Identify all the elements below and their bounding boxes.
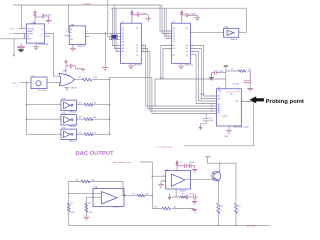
ground opamp2 cap bbox=[192, 169, 198, 172]
svg-text:A1: A1 bbox=[122, 32, 124, 35]
svg-text:7: 7 bbox=[187, 178, 188, 180]
svg-text:R?: R? bbox=[182, 193, 184, 195]
ground OR gate below bbox=[64, 88, 69, 91]
svg-text:1.0K: 1.0K bbox=[71, 212, 76, 214]
svg-text:U?A: U?A bbox=[224, 26, 229, 29]
capacitor C7 opamp2 top bbox=[177, 164, 195, 170]
wire bus collector bbox=[110, 77, 217, 113]
svg-text:74HC04: 74HC04 bbox=[69, 141, 77, 143]
svg-text:5: 5 bbox=[163, 180, 164, 182]
op-amp U12 box bbox=[93, 189, 124, 207]
svg-text:C? 1uF: C? 1uF bbox=[217, 71, 224, 73]
wire buffer2 input bbox=[27, 118, 62, 120]
wire osc input bbox=[20, 82, 31, 84]
capacitor C2 gnd left bbox=[17, 43, 24, 49]
wire IC4 pin drop 4 bbox=[166, 8, 171, 38]
wire IC3 pin drop 2 bbox=[114, 5, 120, 49]
wire opamp2 pin3 bbox=[161, 181, 166, 185]
svg-text:LM358: LM358 bbox=[180, 190, 187, 192]
wire IC4 pin drop 2 bbox=[162, 5, 172, 34]
wire IC4 right pin4 to DAC bbox=[190, 54, 216, 103]
ground IC3 bottom bbox=[128, 63, 134, 69]
svg-text:C? 1uF: C? 1uF bbox=[140, 13, 147, 15]
inverter U5 triangle bbox=[227, 30, 234, 35]
wire vcc rail mid bbox=[208, 162, 236, 164]
ground dark above DAC bbox=[209, 78, 213, 80]
wire buffer1 input bbox=[27, 104, 62, 106]
wire IC4 right pin3 to DAC bbox=[190, 52, 216, 102]
svg-text:D5: D5 bbox=[173, 45, 175, 47]
capacitor C4 IC4 bbox=[182, 13, 198, 18]
svg-text:6: 6 bbox=[211, 98, 212, 100]
wire opamp1 feedback bbox=[69, 182, 123, 196]
oscillator U6 box bbox=[31, 77, 47, 89]
vcc IC1 bbox=[34, 11, 37, 24]
resistor R3 buffer2 bbox=[84, 118, 93, 121]
svg-text:16: 16 bbox=[142, 47, 144, 49]
op-amp U2 IC2 box bbox=[69, 26, 86, 45]
svg-text:Y2: Y2 bbox=[136, 48, 138, 50]
svg-text:LM358: LM358 bbox=[113, 207, 120, 209]
svg-text:6: 6 bbox=[117, 50, 118, 52]
wire IC2 input drop bbox=[68, 5, 70, 32]
wire IC4 right pin2 to DAC bbox=[190, 49, 216, 99]
svg-text:U?A: U?A bbox=[62, 70, 67, 73]
svg-text:7: 7 bbox=[45, 32, 46, 34]
svg-text:C?104: C?104 bbox=[189, 193, 194, 195]
ground DAC bottom bbox=[226, 126, 232, 133]
wire IC1 right to OR gate bbox=[45, 34, 61, 77]
ground IC1 cap bbox=[46, 20, 52, 23]
inverter U10 triangle bbox=[64, 131, 74, 138]
svg-text:U?A: U?A bbox=[31, 21, 36, 24]
svg-text:74HC04: 74HC04 bbox=[69, 126, 77, 128]
inverter U9 box bbox=[61, 115, 77, 125]
wire IC4 pin drop 1 bbox=[160, 5, 172, 31]
svg-text:OUT: OUT bbox=[235, 101, 239, 103]
vcc opamp2 bbox=[176, 161, 178, 172]
svg-text:Y4: Y4 bbox=[136, 55, 138, 57]
capacitor C3 IC3 bbox=[132, 12, 148, 18]
op-amp U3 IC3 box bbox=[121, 23, 142, 63]
DAC U11 box bbox=[217, 89, 242, 126]
resistor R4 buffer3 bbox=[84, 133, 93, 136]
wire IC1 right stub bbox=[45, 35, 50, 37]
svg-text:A2: A2 bbox=[122, 44, 124, 47]
ground IC4 bottom bbox=[178, 63, 184, 69]
svg-text:Q2: Q2 bbox=[185, 48, 187, 50]
svg-text:1: 1 bbox=[23, 27, 24, 29]
ground right mid bbox=[247, 88, 253, 91]
wire buffer1 out bbox=[77, 104, 110, 106]
transistor Q1 bbox=[212, 171, 221, 180]
wire IC4 to buffer U5 bbox=[190, 31, 223, 33]
capacitor C5 right mid bbox=[244, 71, 252, 83]
svg-text:Y8: Y8 bbox=[136, 27, 138, 29]
svg-text:2: 2 bbox=[23, 32, 24, 34]
resistor R11 right mid bbox=[238, 70, 246, 73]
inverter U5 box bbox=[224, 28, 239, 37]
wire summer net right bbox=[184, 145, 254, 147]
svg-text:C?104: C?104 bbox=[189, 162, 194, 164]
wire DAC output bbox=[241, 101, 253, 103]
wire buffer2 out bbox=[77, 118, 110, 120]
svg-text:D7: D7 bbox=[173, 55, 175, 57]
svg-text:C?104: C?104 bbox=[200, 94, 205, 96]
svg-text:14: 14 bbox=[142, 50, 144, 52]
svg-text:U?D: U?D bbox=[62, 128, 67, 130]
svg-text:1.0K: 1.0K bbox=[91, 179, 96, 181]
vee arrow DAC comp bbox=[199, 127, 202, 129]
wire right RC bbox=[226, 71, 250, 88]
svg-text:Y3: Y3 bbox=[136, 51, 138, 53]
svg-text:D0: D0 bbox=[173, 28, 175, 30]
wire IC3 pin drop 1 bbox=[112, 8, 120, 45]
wire IC4 low pin route 2 bbox=[163, 49, 172, 79]
svg-text:1: 1 bbox=[192, 44, 193, 46]
wire OR output bbox=[75, 79, 110, 81]
op-amp U13 box bbox=[166, 170, 191, 189]
svg-text:D6: D6 bbox=[173, 48, 175, 50]
svg-text:C? 3uF: C? 3uF bbox=[233, 83, 240, 85]
wire speaker leg 2 bbox=[235, 163, 237, 225]
oscillator U6 symbol bbox=[36, 81, 41, 86]
svg-text:ECS-100: ECS-100 bbox=[38, 90, 47, 92]
resistor R7 opamp1 leg bbox=[67, 203, 70, 212]
svg-text:Q0: Q0 bbox=[185, 28, 187, 30]
wire mid rail bbox=[155, 79, 226, 106]
svg-text:8: 8 bbox=[168, 37, 169, 39]
capacitor C8 opamp2 bottom bbox=[186, 195, 197, 202]
svg-text:VR-: VR- bbox=[230, 94, 233, 96]
svg-text:C? 1uF: C? 1uF bbox=[189, 13, 196, 15]
inverter U10 box bbox=[61, 129, 77, 139]
svg-text:VR+: VR+ bbox=[218, 91, 221, 93]
capacitor C6 DAC comp bbox=[203, 119, 210, 121]
wire vcc stem DAC bbox=[225, 67, 227, 89]
wire bus A top bbox=[13, 4, 161, 6]
crystal X1 bbox=[111, 34, 117, 40]
op-amp U4 IC4 box bbox=[172, 23, 191, 63]
svg-text:U?A: U?A bbox=[164, 169, 169, 172]
vee opamp2 bbox=[168, 194, 170, 200]
svg-text:74HC540: 74HC540 bbox=[133, 65, 142, 67]
node opamp1 in tap bbox=[68, 193, 70, 195]
wire opamp1 lower leg bbox=[68, 193, 70, 225]
resistor R10 speaker right bbox=[234, 203, 237, 213]
node opamp1 out tap bbox=[124, 195, 126, 197]
wire IC4 right pin1 to DAC bbox=[190, 46, 216, 97]
svg-text:2: 2 bbox=[117, 44, 118, 46]
svg-text:74HC04: 74HC04 bbox=[230, 39, 238, 41]
svg-text:1: 1 bbox=[59, 103, 60, 105]
wire summer net left bbox=[140, 161, 152, 163]
vcc OR area bbox=[65, 60, 76, 74]
wire IC1 left pins bbox=[0, 34, 26, 56]
svg-text:Q1: Q1 bbox=[185, 45, 187, 47]
wire opamp2 output to Q1 bbox=[187, 178, 214, 180]
crystal X1 body bbox=[112, 35, 116, 39]
wire opamp1 gnd leg bbox=[85, 197, 87, 217]
inverter U8 box bbox=[61, 100, 77, 110]
svg-text:74HC04: 74HC04 bbox=[69, 112, 77, 114]
resistor R2 buffer1 bbox=[84, 103, 93, 106]
wire crystal to IC3 bbox=[110, 36, 121, 39]
svg-text:Probing point: Probing point bbox=[266, 99, 304, 105]
wire opamp1 output bbox=[122, 195, 153, 197]
wire IC3 right pin3 to DAC bbox=[141, 52, 216, 112]
svg-text:A2: A2 bbox=[218, 98, 220, 101]
resistor R12 opamp2 bottom bbox=[180, 196, 186, 198]
svg-text:A1: A1 bbox=[218, 95, 220, 98]
svg-text:74HC590A: 74HC590A bbox=[38, 43, 48, 46]
svg-text:2: 2 bbox=[66, 34, 67, 36]
svg-text:1.0K: 1.0K bbox=[93, 77, 98, 79]
ground opamp1 leg bbox=[83, 217, 89, 220]
wire IC4 low pin route 1 bbox=[161, 46, 172, 79]
inverter U9 triangle bbox=[64, 117, 74, 124]
ground IC4 cap bbox=[195, 18, 201, 21]
svg-text:5: 5 bbox=[192, 50, 193, 52]
wire bus B top bbox=[111, 7, 246, 9]
svg-text:spkr_out >: spkr_out > bbox=[247, 225, 258, 228]
or-gate U7 bbox=[59, 74, 75, 86]
wire dac out down bbox=[253, 102, 255, 146]
vcc IC3 bbox=[131, 10, 133, 23]
svg-text:CL: CL bbox=[173, 38, 175, 40]
svg-text:d_data >: d_data > bbox=[84, 3, 93, 6]
svg-text:COMP: COMP bbox=[222, 116, 228, 118]
ground opamp2 bottom bbox=[192, 201, 198, 204]
resistor R5 opamp1 feedback bbox=[81, 180, 90, 183]
svg-text:74HC32: 74HC32 bbox=[71, 88, 78, 90]
vcc Q1 bbox=[205, 157, 211, 163]
wire IC2 output bbox=[86, 33, 121, 36]
svg-text:2: 2 bbox=[192, 47, 193, 49]
svg-text:5: 5 bbox=[211, 95, 212, 97]
node summing taps bbox=[109, 79, 111, 81]
wire DAC comp cap bbox=[201, 114, 207, 128]
wire Q1 collector bbox=[219, 163, 221, 171]
svg-text:3: 3 bbox=[99, 199, 100, 201]
wire buffers input rail bbox=[26, 83, 28, 135]
svg-text:Y1: Y1 bbox=[136, 45, 138, 47]
svg-text:1.0K: 1.0K bbox=[145, 194, 150, 196]
svg-text:4: 4 bbox=[117, 47, 118, 49]
op-amp U1 counter IC1 box bbox=[26, 24, 44, 43]
wire IC1 left pin row1 bbox=[18, 28, 26, 30]
ground divider bbox=[192, 209, 198, 212]
wire opamp2 in bbox=[152, 175, 165, 177]
node vcc rail taps bbox=[219, 162, 221, 164]
resistor R6 opamp1 output bbox=[137, 194, 145, 197]
svg-text:A0: A0 bbox=[122, 35, 124, 38]
svg-text:A4: A4 bbox=[122, 50, 124, 53]
wire IC1 clock drop bbox=[21, 5, 23, 29]
svg-text:U?E: U?E bbox=[62, 99, 67, 101]
wire bottom rail bbox=[69, 224, 270, 226]
svg-text:DAC0808_model: DAC0808_model bbox=[234, 126, 250, 129]
vcc IC4 bbox=[181, 11, 183, 24]
svg-text:104: 104 bbox=[210, 120, 213, 122]
op-amp U12 triangle bbox=[102, 192, 118, 205]
wire summer drop bbox=[151, 162, 153, 209]
inverter U8 triangle bbox=[64, 102, 74, 109]
probing point arrow bbox=[250, 96, 264, 103]
node bottom rail taps bbox=[218, 225, 220, 227]
wire osc output to OR bbox=[47, 82, 61, 84]
svg-text:74HC574: 74HC574 bbox=[184, 65, 193, 67]
wire IC4 pin drop 3 bbox=[164, 8, 171, 36]
svg-text:3: 3 bbox=[87, 32, 88, 34]
svg-text:2: 2 bbox=[99, 192, 100, 194]
node IC2 out tap bbox=[105, 32, 107, 34]
svg-text:3: 3 bbox=[23, 37, 24, 39]
svg-text:U?A: U?A bbox=[70, 23, 75, 26]
wire divider row bbox=[152, 208, 194, 211]
wire IC2 out gnd drop bbox=[104, 33, 106, 67]
svg-text:G1: G1 bbox=[122, 27, 124, 29]
wire buffer3 out bbox=[77, 133, 110, 135]
ground OR cap bbox=[76, 69, 86, 73]
wire summing rail bbox=[109, 77, 111, 134]
wire IC3 pin drop 3 bbox=[116, 8, 121, 51]
svg-text:C?: C? bbox=[180, 162, 182, 164]
wire opamp1 in rows bbox=[69, 193, 102, 197]
svg-text:4: 4 bbox=[243, 100, 244, 102]
ground IC2 out bbox=[102, 68, 108, 71]
svg-text:1.0K: 1.0K bbox=[92, 132, 97, 134]
svg-text:C? 1uF: C? 1uF bbox=[45, 14, 52, 16]
resistor R8 opamp1 gnd leg bbox=[85, 203, 88, 212]
ground IC3 cap bbox=[146, 19, 152, 22]
ground IC2 bbox=[70, 45, 76, 52]
svg-text:a dac_summer_out >: a dac_summer_out > bbox=[112, 161, 133, 164]
wire IC3 right pin2 to DAC bbox=[141, 49, 216, 109]
node dac out tap bbox=[253, 101, 255, 103]
svg-text:U?A: U?A bbox=[94, 186, 99, 189]
wire opamp2 bottom pin bbox=[169, 189, 180, 197]
svg-text:11: 11 bbox=[211, 111, 213, 113]
svg-text:1.0K: 1.0K bbox=[92, 117, 97, 119]
wire buffer U5 feedback bbox=[239, 8, 247, 32]
svg-text:2: 2 bbox=[240, 31, 241, 33]
wire IC3 right pin1 to DAC bbox=[141, 46, 216, 107]
svg-text:18: 18 bbox=[142, 44, 144, 46]
svg-text:A3: A3 bbox=[122, 47, 124, 50]
op-amp U13 triangle bbox=[172, 174, 186, 186]
svg-text:a_summer_out: a_summer_out bbox=[157, 145, 172, 148]
wire IC2 left stubs bbox=[65, 32, 70, 36]
svg-text:6: 6 bbox=[163, 175, 164, 177]
svg-text:1.0K: 1.0K bbox=[88, 212, 93, 214]
svg-text:A7: A7 bbox=[218, 111, 220, 114]
capacitor C10 above DAC bbox=[212, 70, 226, 77]
svg-text:Q3: Q3 bbox=[185, 51, 187, 53]
wire Q1 emitter leg bbox=[217, 181, 219, 225]
svg-text:1: 1 bbox=[222, 31, 223, 33]
ground IC1 pin bbox=[33, 43, 39, 50]
svg-text:5: 5 bbox=[59, 133, 60, 135]
resistor R1 OR output bbox=[82, 78, 92, 81]
svg-text:1.0K: 1.0K bbox=[92, 103, 97, 105]
wire crystal drop bbox=[108, 0, 112, 36]
resistor R9 speaker left bbox=[217, 203, 220, 213]
svg-text:Q4: Q4 bbox=[185, 55, 187, 57]
svg-text:74HC08: 74HC08 bbox=[77, 46, 85, 48]
vcc bar dark above DAC bbox=[224, 65, 228, 67]
svg-text:1: 1 bbox=[126, 194, 127, 196]
svg-text:DAC OUTPUT: DAC OUTPUT bbox=[76, 151, 114, 157]
wire buffer3 input bbox=[27, 133, 62, 135]
node summer taps bbox=[152, 175, 154, 177]
svg-text:1: 1 bbox=[66, 31, 67, 33]
resistor R13 divider bbox=[162, 207, 171, 210]
svg-text:3: 3 bbox=[59, 118, 60, 120]
node buffer rail taps bbox=[26, 104, 28, 106]
ground opamp2 pin3 bbox=[158, 185, 164, 188]
capacitor C1 IC1 bbox=[35, 14, 49, 20]
ground dark C2 bbox=[18, 49, 24, 51]
